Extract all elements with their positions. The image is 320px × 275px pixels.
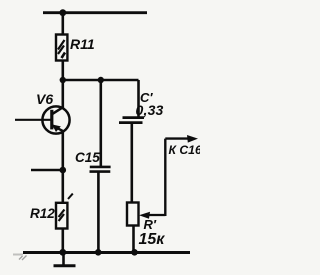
wire: emitter lead down	[61, 132, 64, 203]
svg-text:R′: R′	[144, 217, 157, 232]
ground symbol	[54, 253, 76, 266]
junction: C15 to ground rail	[95, 249, 102, 256]
svg-text:К С16: К С16	[169, 143, 201, 157]
svg-text:0,33: 0,33	[136, 102, 164, 118]
transistor V6	[42, 106, 69, 133]
svg-text:15к: 15к	[139, 231, 166, 248]
wire: C' top lead	[137, 80, 140, 117]
capacitor C'	[119, 118, 144, 123]
wire: horizontal to C'	[63, 79, 139, 81]
wire/arrow: to C16	[165, 135, 198, 143]
wire: R12 bottom lead	[61, 229, 64, 253]
wire: C15 top lead	[100, 80, 103, 166]
svg-text:R11: R11	[70, 36, 95, 52]
wire: R11 top lead	[61, 13, 64, 35]
wire: C' bottom lead	[131, 123, 134, 203]
junction: top rail / R11	[59, 9, 66, 16]
wire: R' bottom lead	[132, 226, 135, 253]
wire: stub left from emitter node	[31, 169, 63, 171]
junction: R' to ground rail	[131, 249, 138, 256]
wire: bottom ground rail	[23, 251, 190, 254]
resistor R11	[56, 35, 67, 61]
wire: wiper riser	[164, 139, 166, 216]
svg-text:V6: V6	[36, 91, 53, 107]
svg-text:C15: C15	[75, 150, 100, 165]
wire: R11 bottom lead to collector	[61, 61, 64, 109]
resistor R' (trimmer)	[127, 203, 139, 226]
capacitor C15	[90, 167, 111, 172]
tick mark above R12	[68, 194, 73, 199]
junction: collector node to C' branch	[60, 77, 66, 83]
junction: C15 tap	[98, 77, 104, 83]
wire: top supply rail	[43, 11, 147, 14]
junction: R12 to ground rail	[59, 249, 66, 256]
svg-text:R12: R12	[30, 206, 55, 221]
wire: C15 bottom lead	[97, 172, 100, 253]
wire: base lead	[15, 119, 52, 121]
junction: emitter node	[60, 167, 67, 174]
wiper arrow of R'	[139, 212, 165, 219]
resistor R12	[56, 203, 67, 229]
